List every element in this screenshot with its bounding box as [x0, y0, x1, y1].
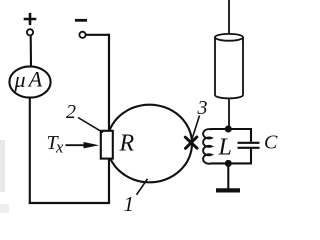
- svg-text:A: A: [27, 66, 43, 91]
- svg-text:L: L: [218, 135, 232, 161]
- svg-text:2: 2: [66, 101, 76, 123]
- svg-text:x: x: [55, 137, 64, 156]
- svg-text:μ: μ: [14, 67, 26, 92]
- svg-text:R: R: [119, 131, 135, 157]
- svg-text:1: 1: [124, 192, 135, 216]
- svg-text:3: 3: [197, 97, 208, 119]
- svg-text:C: C: [264, 132, 278, 154]
